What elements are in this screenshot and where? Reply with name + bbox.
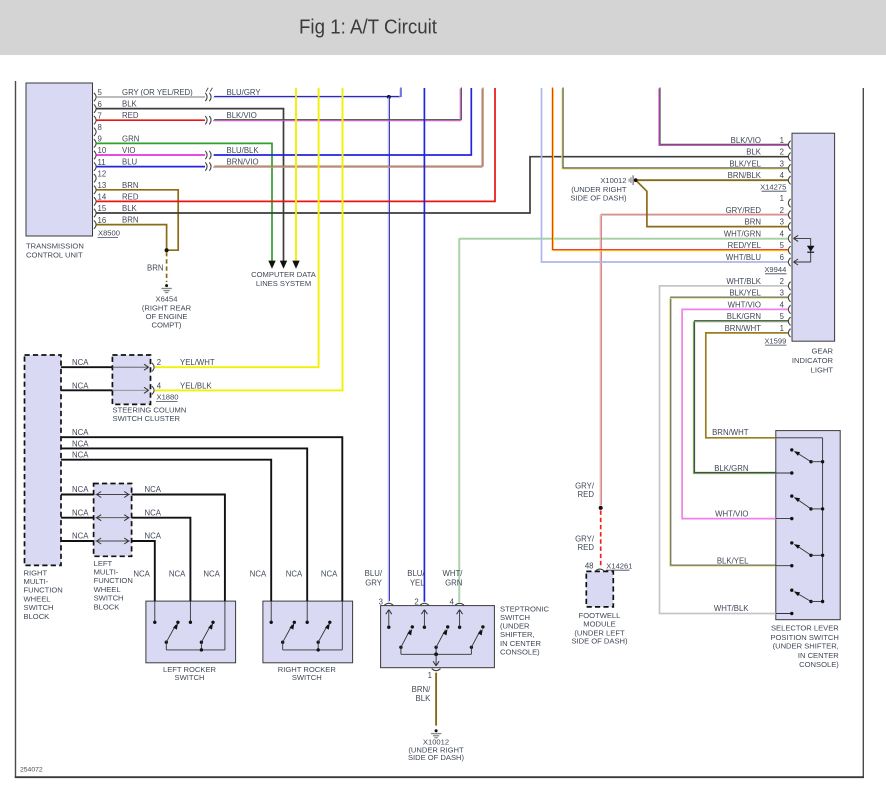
transmission control unit box (26, 83, 93, 236)
svg-text:NCA: NCA (133, 570, 150, 579)
svg-text:BLK: BLK (122, 204, 138, 213)
X1880 pin arc 2 (152, 363, 154, 371)
wire BLK/VIO pin7 to top (214, 87, 461, 119)
svg-text:6: 6 (780, 253, 784, 262)
footwell pin arc 48 (595, 569, 604, 571)
left rocker switch switch arm 2 (200, 641, 203, 644)
svg-text:(UNDER RIGHT: (UNDER RIGHT (571, 185, 627, 194)
left rocker switch contact dots (153, 621, 156, 624)
svg-text:SIDE OF DASH): SIDE OF DASH) (571, 637, 628, 646)
wire BLK pin15 to gear indicator pin2 (96, 157, 788, 213)
wire YEL/WHT from top to X1880 pin2 (155, 88, 319, 367)
svg-text:BRN/VIO: BRN/VIO (227, 158, 259, 167)
svg-text:WHEEL: WHEEL (94, 585, 121, 594)
svg-text:RED: RED (578, 543, 595, 552)
svg-text:BLK/YEL: BLK/YEL (717, 557, 749, 566)
svg-text:BLU/BLK: BLU/BLK (227, 146, 260, 155)
inline connector on pin 7 wire (205, 116, 207, 124)
svg-text:CONSOLE): CONSOLE) (500, 647, 540, 656)
selector internal bus (822, 438, 824, 602)
svg-text:X1599: X1599 (764, 336, 786, 345)
svg-text:TRANSMISSION: TRANSMISSION (26, 242, 84, 251)
wire NCA through left block row 2 (61, 517, 94, 519)
wire BRN pin16 to junction (96, 225, 166, 251)
svg-text:RED: RED (122, 111, 139, 120)
svg-text:X1880: X1880 (157, 393, 179, 402)
svg-text:BRN: BRN (122, 181, 138, 190)
svg-text:8: 8 (98, 123, 102, 132)
wire GRY/RED dashed to footwell pin48 (600, 511, 602, 568)
svg-text:WHT/BLK: WHT/BLK (714, 604, 749, 613)
wire BRN/BLK splice to gear pin4 (638, 179, 789, 181)
inline connector on pin 5 wire (205, 93, 207, 101)
wire BRN/VIO pin11 to top (214, 87, 483, 166)
svg-text:X14261: X14261 (606, 561, 632, 570)
svg-text:NCA: NCA (203, 570, 220, 579)
svg-text:MULTI-: MULTI- (94, 568, 119, 577)
svg-text:RIGHT: RIGHT (24, 568, 48, 577)
selector switch unit 4 (790, 589, 793, 592)
selector switch unit 2 (790, 494, 793, 497)
svg-text:4: 4 (780, 300, 785, 309)
svg-text:9: 9 (98, 135, 102, 144)
wire BLK pin6 down to computer data (96, 109, 283, 261)
svg-text:3: 3 (780, 218, 784, 227)
svg-text:BLK/VIO: BLK/VIO (227, 111, 257, 120)
diode symbol (807, 246, 815, 252)
svg-text:3: 3 (379, 597, 383, 606)
svg-text:BRN: BRN (745, 218, 761, 227)
wire BLU/YEL from top to steptronic pin2 (423, 88, 425, 602)
svg-text:6: 6 (98, 100, 102, 109)
svg-text:STEERING COLUMN: STEERING COLUMN (113, 406, 187, 415)
svg-text:BLK/GRN: BLK/GRN (727, 312, 761, 321)
svg-text:FUNCTION: FUNCTION (94, 576, 133, 585)
left multi-function wheel switch block box (94, 484, 132, 557)
svg-text:X14275: X14275 (760, 183, 786, 192)
wire RED pin14 to top (96, 88, 495, 201)
wire BRN splice to gear pin3 group2 (637, 182, 788, 227)
svg-text:MODULE: MODULE (583, 620, 616, 629)
svg-text:254072: 254072 (20, 767, 43, 774)
wire BRN/BLK steptronic pin1 to ground (435, 673, 437, 726)
ground X10012 (435, 729, 438, 732)
svg-text:BLOCK: BLOCK (24, 612, 50, 621)
wire NCA to right rocker 2 (61, 448, 307, 601)
wire WHT/VIO gear to selector (682, 309, 788, 518)
left rocker switch switch arm 1 (165, 641, 168, 644)
tick marks above pin 5 connector (206, 88, 208, 92)
svg-text:4: 4 (157, 381, 162, 390)
wire BLK/GRN gear to selector (695, 321, 790, 473)
gear indicator light box (792, 133, 835, 341)
svg-text:CONTROL UNIT: CONTROL UNIT (26, 250, 83, 259)
wire NCA to right rocker 1 (61, 460, 271, 601)
svg-text:NCA: NCA (72, 532, 89, 541)
wire RED/YEL from top to gear pin5 (553, 89, 789, 251)
wire BRN pin13 to junction (96, 190, 178, 250)
svg-text:RED: RED (122, 192, 139, 201)
wire NCA through left block row 3 (61, 540, 94, 542)
svg-text:GRY: GRY (365, 578, 383, 587)
X1880 pin arc 4 (152, 386, 154, 394)
svg-text:2: 2 (780, 277, 784, 286)
X1880 internal row pin4 (94, 389, 149, 391)
svg-text:RED/YEL: RED/YEL (728, 241, 762, 250)
svg-text:13: 13 (98, 181, 107, 190)
wire VIO pin10 (96, 154, 205, 156)
svg-text:5: 5 (780, 241, 785, 250)
svg-text:BLU/: BLU/ (365, 569, 383, 578)
svg-text:FUNCTION: FUNCTION (24, 586, 63, 595)
svg-text:GRN: GRN (122, 134, 139, 143)
steptronic internal contacts (387, 626, 390, 629)
svg-text:COMPUTER DATA: COMPUTER DATA (251, 270, 317, 279)
svg-text:GRN: GRN (445, 578, 462, 587)
selector switch unit 3 (790, 541, 793, 544)
svg-text:GEAR: GEAR (811, 347, 833, 356)
junction dot GRY/RED (599, 506, 603, 510)
svg-text:BRN/: BRN/ (412, 685, 431, 694)
svg-text:BLK: BLK (122, 100, 138, 109)
inline connector on pin 10 wire (205, 151, 207, 159)
svg-text:4: 4 (450, 597, 455, 606)
arrow green (268, 261, 275, 269)
svg-text:NCA: NCA (72, 358, 89, 367)
svg-text:YEL/WHT: YEL/WHT (180, 358, 215, 367)
wire NCA through left block row 1 (61, 494, 94, 496)
wire BLU/GRY vertical to steptronic pin3 (388, 96, 390, 601)
wire BLU/GRY pin5 to junction and top (214, 87, 401, 96)
left rocker switch box (146, 601, 236, 663)
svg-text:(UNDER SHIFTER,: (UNDER SHIFTER, (773, 642, 839, 651)
svg-text:NCA: NCA (72, 508, 89, 517)
svg-text:NCA: NCA (145, 485, 162, 494)
svg-text:3: 3 (780, 289, 784, 298)
arrow black (280, 261, 287, 269)
svg-text:BRN/WHT: BRN/WHT (712, 428, 749, 437)
svg-text:BLU: BLU (122, 158, 138, 167)
svg-text:NCA: NCA (169, 570, 186, 579)
svg-text:12: 12 (98, 169, 107, 178)
svg-text:VIO: VIO (122, 146, 135, 155)
svg-text:11: 11 (98, 158, 106, 167)
svg-text:SWITCH: SWITCH (175, 673, 205, 682)
selector lever position switch box (776, 431, 840, 620)
svg-text:X9944: X9944 (764, 265, 786, 274)
svg-text:BRN/WHT: BRN/WHT (725, 324, 762, 333)
svg-text:X6454: X6454 (156, 295, 178, 304)
yellow wire to computer data (295, 88, 297, 261)
svg-text:SWITCH CLUSTER: SWITCH CLUSTER (113, 414, 181, 423)
gear internal diode bracket (794, 237, 811, 239)
svg-text:BLK: BLK (746, 148, 762, 157)
wire BLU pin11 (96, 166, 205, 168)
svg-text:WHT/: WHT/ (442, 569, 463, 578)
svg-text:1: 1 (428, 671, 432, 680)
selector switch unit 1 (790, 448, 793, 451)
X1880 internal row pin2 (94, 366, 149, 368)
wire BRN dashed to ground (166, 252, 168, 282)
svg-text:5: 5 (98, 88, 103, 97)
right rocker switch switch arm 1 (281, 641, 284, 644)
ground X6454 (165, 284, 168, 287)
svg-text:BLK/VIO: BLK/VIO (731, 136, 761, 145)
svg-text:COMPT): COMPT) (152, 320, 182, 329)
svg-text:BRN: BRN (147, 264, 163, 273)
inline connector on pin 11 wire (205, 162, 207, 170)
diagram left border (15, 81, 17, 778)
TCU pin arcs 5-16 (94, 93, 96, 101)
gear pin arcs group3 (788, 282, 790, 290)
left rocker switch internal bus (166, 649, 225, 651)
title bar (0, 0, 886, 55)
X1880 box (112, 355, 150, 404)
svg-text:BLU/GRY: BLU/GRY (227, 88, 262, 97)
wire WHT/BLU from top to gear pin6 (542, 88, 789, 262)
wire GRY/RED gear pin2 to footwell (601, 214, 789, 505)
svg-text:WHT/BLU: WHT/BLU (726, 253, 761, 262)
steptronic switch arms (399, 646, 402, 649)
svg-text:BRN: BRN (122, 216, 138, 225)
diagram bottom border (15, 776, 864, 778)
svg-text:BLK/GRN: BLK/GRN (714, 464, 748, 473)
diagram right border (862, 88, 864, 778)
svg-text:YEL/BLK: YEL/BLK (180, 381, 212, 390)
svg-text:NCA: NCA (72, 439, 89, 448)
svg-text:7: 7 (98, 111, 102, 120)
svg-text:2: 2 (780, 148, 784, 157)
footwell module box (586, 571, 613, 607)
svg-text:SIDE OF DASH): SIDE OF DASH) (570, 194, 627, 203)
splice X10012 (632, 175, 634, 185)
junction dot BLU/GRY (387, 95, 391, 99)
wire WHT/BLK gear to selector (660, 286, 789, 614)
svg-text:2: 2 (780, 206, 784, 215)
svg-text:SWITCH: SWITCH (292, 673, 322, 682)
svg-text:LINES SYSTEM: LINES SYSTEM (256, 279, 311, 288)
wire RED pin7 (96, 119, 205, 121)
svg-text:1: 1 (780, 324, 784, 333)
svg-text:2: 2 (414, 597, 418, 606)
svg-text:16: 16 (98, 216, 107, 225)
svg-text:NCA: NCA (72, 451, 89, 460)
steptronic switch box (381, 606, 495, 668)
svg-text:BLK/YEL: BLK/YEL (729, 160, 761, 169)
wire GRN pin9 down to computer data (96, 143, 272, 261)
svg-text:WHT/VIO: WHT/VIO (728, 300, 761, 309)
wire BLU/BLK pin10 to top (214, 88, 472, 155)
svg-text:4: 4 (780, 171, 785, 180)
steptronic internal bus (401, 653, 472, 655)
svg-text:LIGHT: LIGHT (811, 366, 834, 375)
svg-text:SWITCH: SWITCH (94, 594, 124, 603)
svg-text:2: 2 (157, 358, 161, 367)
svg-text:10: 10 (98, 146, 107, 155)
svg-text:1: 1 (780, 136, 784, 145)
svg-text:BLU/: BLU/ (407, 569, 425, 578)
svg-text:Fig 1: A/T Circuit: Fig 1: A/T Circuit (299, 17, 437, 39)
svg-text:INDICATOR: INDICATOR (792, 356, 834, 365)
wire NCA to X1880 pin4 (61, 389, 112, 391)
wire BLK/YEL gear to selector (671, 297, 789, 565)
svg-text:MULTI-: MULTI- (24, 577, 49, 586)
svg-text:SWITCH: SWITCH (24, 603, 54, 612)
svg-text:4: 4 (780, 229, 785, 238)
wire NCA to right rocker 3 (61, 437, 342, 601)
gear pin arcs group2 (788, 199, 790, 207)
svg-text:1: 1 (780, 194, 784, 203)
gear pin arcs group1 (788, 141, 790, 149)
right rocker switch switch arm 2 (317, 641, 320, 644)
wire BRN/WHT gear to selector bus (706, 333, 789, 438)
svg-text:BLK/YEL: BLK/YEL (729, 289, 761, 298)
wire BLK/VIO from top to gear pin1 (660, 87, 789, 144)
svg-text:3: 3 (780, 160, 784, 169)
svg-text:14: 14 (98, 193, 107, 202)
svg-text:WHT/BLK: WHT/BLK (726, 277, 761, 286)
svg-text:POSITION SWITCH: POSITION SWITCH (770, 633, 838, 642)
svg-text:48: 48 (585, 561, 594, 570)
svg-text:5: 5 (780, 312, 785, 321)
svg-text:15: 15 (98, 204, 107, 213)
svg-text:X10012: X10012 (600, 176, 626, 185)
steptronic pin arcs (384, 603, 393, 605)
svg-text:NCA: NCA (72, 485, 89, 494)
svg-text:WHT/VIO: WHT/VIO (715, 510, 748, 519)
svg-text:NCA: NCA (145, 508, 162, 517)
svg-text:X8500: X8500 (98, 229, 120, 238)
svg-text:(OR YEL/RED): (OR YEL/RED) (141, 88, 194, 97)
svg-text:NCA: NCA (250, 570, 267, 579)
svg-text:NCA: NCA (72, 381, 89, 390)
svg-text:NCA: NCA (286, 570, 303, 579)
right rocker switch contact dots (270, 621, 273, 624)
svg-text:BLK: BLK (416, 694, 432, 703)
svg-text:NCA: NCA (145, 532, 162, 541)
svg-text:RED: RED (578, 490, 595, 499)
svg-text:BLOCK: BLOCK (94, 602, 120, 611)
arrow yellow (292, 261, 299, 269)
wire YEL/BLK from top to X1880 pin4 (155, 88, 343, 390)
svg-text:NCA: NCA (72, 428, 89, 437)
wire WHT/GRN gear pin4 to steptronic pin4 (460, 238, 789, 601)
wire NCA to X1880 pin2 (61, 366, 112, 368)
svg-text:CONSOLE): CONSOLE) (799, 660, 839, 669)
svg-text:BRN/BLK: BRN/BLK (728, 171, 762, 180)
svg-text:NCA: NCA (321, 570, 338, 579)
right multi-function wheel switch block box (25, 355, 62, 565)
wire GRY pin5 (96, 96, 205, 98)
wire BLK/YEL from top to gear pin3 (563, 87, 789, 168)
svg-text:WHEEL: WHEEL (24, 594, 51, 603)
svg-text:GRY: GRY (122, 88, 140, 97)
right rocker switch internal bus (283, 649, 343, 651)
junction dot BRN (165, 248, 169, 252)
svg-text:LEFT: LEFT (94, 559, 113, 568)
right rocker switch box (263, 601, 353, 663)
svg-text:YEL: YEL (410, 578, 425, 587)
svg-text:GRY/RED: GRY/RED (726, 206, 762, 215)
svg-text:SELECTOR LEVER: SELECTOR LEVER (771, 623, 839, 632)
steptronic output to pin1 (435, 654, 437, 666)
svg-text:SIDE OF DASH): SIDE OF DASH) (408, 753, 465, 762)
svg-text:WHT/GRN: WHT/GRN (724, 229, 761, 238)
svg-text:IN CENTER: IN CENTER (798, 651, 839, 660)
